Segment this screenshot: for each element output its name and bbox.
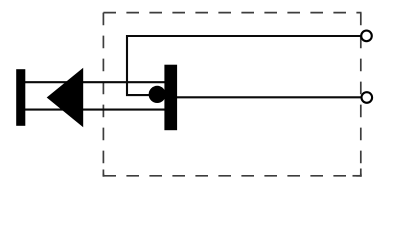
electrode plate (right thick bar) bbox=[164, 65, 177, 131]
electrode plate (left bar) bbox=[16, 69, 25, 126]
wire: lower electrode connection (left bar to right bar) bbox=[25, 109, 166, 111]
junction dot bbox=[149, 86, 166, 103]
wire: right electrode to bottom terminal bbox=[176, 96, 362, 98]
wire: upper electrode connection (left bar to right bar) bbox=[25, 81, 166, 83]
terminal T2 (bottom, open circle) bbox=[362, 92, 373, 103]
enclosure outline (dashed package boundary) bbox=[103, 13, 361, 177]
wire: top terminal lead to internal node bbox=[127, 36, 362, 95]
terminal T1 (top, open circle) bbox=[361, 31, 372, 42]
transducer element (solid triangle, points left) bbox=[47, 68, 83, 127]
